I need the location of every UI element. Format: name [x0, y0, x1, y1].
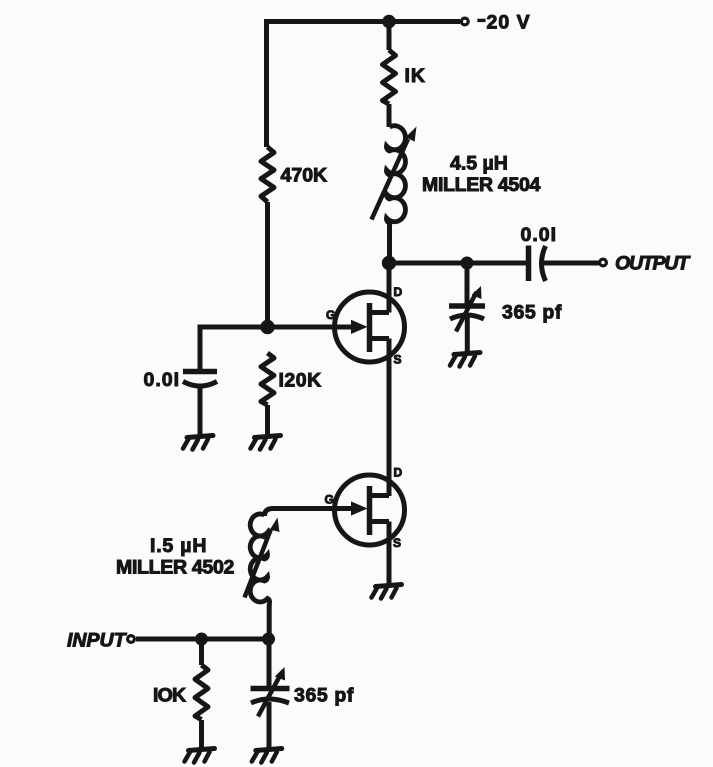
- svg-text:G: G: [326, 308, 335, 322]
- svg-text:INPUT: INPUT: [67, 630, 128, 652]
- svg-text:D: D: [394, 466, 403, 480]
- svg-text:S: S: [393, 536, 401, 550]
- svg-text:I.5 µH: I.5 µH: [150, 535, 207, 557]
- svg-text:365 pf: 365 pf: [502, 302, 562, 324]
- svg-text:IOK: IOK: [153, 685, 186, 707]
- svg-text:0.0I: 0.0I: [521, 224, 558, 246]
- svg-text:0.0I: 0.0I: [144, 369, 181, 391]
- svg-text:G: G: [325, 493, 334, 507]
- svg-text:OUTPUT: OUTPUT: [615, 253, 691, 275]
- svg-text:365 pf: 365 pf: [294, 685, 354, 707]
- svg-text:20 V: 20 V: [487, 12, 531, 34]
- svg-text:I20K: I20K: [279, 370, 322, 392]
- svg-text:S: S: [394, 353, 402, 367]
- svg-text:470K: 470K: [281, 165, 328, 187]
- svg-text:4.5 µH: 4.5 µH: [450, 153, 508, 175]
- svg-text:IK: IK: [405, 65, 427, 87]
- svg-text:MILLER 4502: MILLER 4502: [116, 557, 235, 579]
- svg-text:MILLER 4504: MILLER 4504: [422, 174, 541, 196]
- svg-text:D: D: [394, 285, 403, 299]
